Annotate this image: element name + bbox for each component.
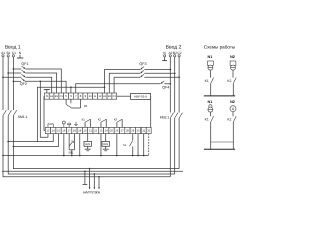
- neutral N input 1 busbar tap: [17, 55, 23, 58]
- junction drop into terminal 6: [70, 86, 72, 93]
- svg-text:13: 13: [46, 130, 49, 133]
- svg-text:QF4: QF4: [162, 86, 169, 90]
- internal relay K0 contact (terminals 5-6-7): [66, 99, 88, 108]
- wire terminal 26 to common rail: [116, 134, 118, 157]
- wire QF2 from C1 phase to terminal 5: [13, 80, 67, 93]
- wire QF2 branch down left side to terminal 13: [40, 81, 48, 137]
- svg-text:26: 26: [115, 130, 118, 133]
- load arrows: [89, 187, 100, 189]
- bell output icon above terminal 17: [67, 123, 70, 127]
- relay contact K3 (terminals 26-27): [114, 117, 122, 127]
- svg-text:S1: S1: [123, 144, 127, 147]
- terminal A1 (input 1): [2, 55, 4, 57]
- wire phase B2 below KM2.1 down to bus B: [174, 118, 176, 174]
- scheme1 lamp N1: [208, 55, 214, 70]
- svg-text:N1: N1: [208, 100, 213, 104]
- svg-text:Схемы работы: Схемы работы: [204, 45, 235, 50]
- svg-text:B2: B2: [108, 95, 112, 98]
- svg-text:КМ2: КМ2: [103, 143, 109, 146]
- contactor coil KM1: [84, 134, 91, 151]
- svg-text:N1: N1: [208, 55, 213, 59]
- svg-text:КМ2.1: КМ2.1: [160, 115, 170, 119]
- wire phase C2 below KM2.1 down to bus C: [178, 118, 180, 169]
- common/ground icon above terminal 18: [74, 122, 78, 126]
- scheme1 supply rail: [204, 95, 235, 97]
- svg-text:32: 32: [147, 130, 150, 133]
- junction QF2 branch to Ub terminal 13: [39, 80, 41, 82]
- svg-text:К3: К3: [114, 117, 118, 121]
- wire QF1 pole2 B1-phase to terminal B1: [7, 72, 56, 93]
- svg-text:22: 22: [94, 130, 97, 133]
- svg-text:15: 15: [57, 130, 60, 133]
- wire QF4 from A2 phase to terminal 7: [76, 83, 171, 93]
- svg-text:QF2: QF2: [20, 82, 27, 86]
- common rail wire under controller: [2, 155, 149, 157]
- node Схемы работы (operation schemes title): [204, 45, 235, 50]
- svg-text:K2: K2: [227, 118, 231, 122]
- wire QF1 pole1 C1-phase to terminal C1: [13, 68, 62, 93]
- svg-text:16: 16: [62, 130, 65, 133]
- scheme2 contact K2: [227, 112, 236, 122]
- svg-text:27: 27: [121, 130, 124, 133]
- svg-text:A2: A2: [103, 95, 107, 98]
- load drop B phase: [93, 173, 95, 187]
- scheme1 contact K2: [227, 70, 236, 83]
- contactor KM1.1 main contacts (input 1): [3, 110, 28, 119]
- terminal A2 (input 2): [169, 55, 171, 57]
- scheme2 lamp N1: [208, 100, 213, 112]
- svg-text:N2: N2: [230, 100, 235, 104]
- controller type label АВР-01-К: [131, 93, 151, 99]
- svg-text:Ввод 2: Ввод 2: [166, 45, 182, 51]
- svg-text:К2: К2: [98, 117, 102, 121]
- relay contact K2 (terminals 23-24): [98, 117, 106, 127]
- svg-text:КМ1.1: КМ1.1: [18, 115, 28, 119]
- scheme1 lamp N2: [230, 55, 236, 70]
- scheme1 wire K1 to rail: [210, 83, 212, 95]
- terminal B1 (input 1): [7, 55, 9, 57]
- svg-text:C1: C1: [60, 95, 64, 98]
- svg-text:25: 25: [110, 130, 113, 133]
- wire phase A1 below KM1.1 to bus A: [3, 116, 170, 177]
- wire phase C2 vertical: [178, 57, 180, 113]
- svg-text:НАГРУЗКА: НАГРУЗКА: [83, 191, 101, 195]
- scheme2 generator N2: [230, 100, 236, 112]
- svg-text:K2: K2: [227, 79, 231, 83]
- contactor coil KM2: [102, 134, 109, 151]
- svg-text:24: 24: [105, 130, 108, 133]
- wire QF3 pole1 A2-phase to terminal A2: [105, 69, 172, 93]
- svg-text:К0: К0: [84, 104, 88, 108]
- svg-text:29: 29: [131, 130, 134, 133]
- svg-text:17: 17: [68, 130, 71, 133]
- svg-text:КМ1: КМ1: [85, 143, 91, 146]
- wire phase A2 below KM2.1 down to bus A: [169, 118, 171, 177]
- svg-text:АВР-01-К: АВР-01-К: [134, 95, 147, 99]
- neutral N input 2 busbar tap: [162, 55, 167, 61]
- wire terminal 19 to common rail: [79, 134, 81, 157]
- svg-text:23: 23: [99, 130, 102, 133]
- svg-text:SB1: SB1: [68, 152, 74, 155]
- svg-text:N: N: [46, 94, 48, 98]
- lamp output icon above terminal 16: [62, 121, 65, 127]
- svg-text:19: 19: [78, 130, 81, 133]
- wire phase B2 vertical: [174, 57, 176, 113]
- circuit breaker QF3 (3-pole, input 2 sensing): [139, 62, 146, 77]
- node Ввод 2 (input 2 title): [166, 45, 182, 51]
- terminal C1 (input 1): [12, 55, 14, 57]
- svg-text:14: 14: [52, 130, 55, 133]
- wire terminal 16 to common rail: [63, 134, 65, 157]
- scheme2 contact K1: [205, 112, 214, 122]
- wire terminal 14 to phase B1 tap junction: [7, 134, 53, 143]
- svg-text:20: 20: [84, 130, 87, 133]
- svg-text:Ввод 1: Ввод 1: [5, 45, 21, 51]
- scheme2 supply rail: [204, 148, 235, 150]
- svg-text:28: 28: [126, 130, 129, 133]
- load neutral drop with busbar tap symbol: [83, 170, 88, 184]
- scheme2 tie wire between columns: [211, 141, 234, 143]
- wire terminal 32 dashed to common rail: [148, 134, 150, 156]
- switch S1 (terminal 29 test input): [123, 134, 134, 157]
- svg-text:QF1: QF1: [21, 62, 28, 66]
- neutral bus N horizontal: [2, 170, 183, 172]
- svg-text:Ub: Ub: [49, 123, 53, 126]
- controller АВР-01-К block outline: [44, 96, 151, 130]
- wire terminal 15 to phase C1 tap: [13, 134, 59, 148]
- wire phase A1 vertical: [2, 57, 4, 110]
- contactor KM2.1 main contacts (input 2): [160, 113, 183, 120]
- terminal C2 (input 2): [178, 55, 180, 57]
- wire phase A2 vertical: [169, 57, 171, 113]
- controller neutral busbar tap above terminal N: [44, 90, 50, 93]
- svg-text:K1: K1: [205, 79, 209, 83]
- svg-text:A1: A1: [50, 95, 54, 98]
- wire QF3 pole2 B2-phase to terminal B2: [109, 72, 175, 93]
- scheme2 wire K2 down to rail: [232, 122, 234, 149]
- circuit breaker QF4 (control supply input 2): [161, 81, 170, 90]
- wire phase C1 vertical: [12, 57, 14, 110]
- terminal labels N A2 B2 C2 (input 2): [163, 51, 181, 55]
- scheme1 contact K1: [205, 70, 214, 83]
- pushbutton SB1 (terminals 17-18): [68, 134, 74, 157]
- svg-text:21: 21: [89, 130, 92, 133]
- svg-text:C2: C2: [113, 95, 117, 98]
- svg-text:30: 30: [137, 130, 140, 133]
- svg-text:B1: B1: [55, 95, 59, 98]
- wire QF3 pole3 C2-phase to terminal C2: [114, 76, 180, 93]
- svg-text:18: 18: [73, 130, 76, 133]
- load drop C phase: [89, 168, 91, 188]
- wire terminal 31 to common rail: [143, 134, 145, 157]
- wire phase B1 below KM1.1 to bus B: [8, 116, 175, 175]
- node Ввод 1 (input 1 title): [5, 45, 21, 51]
- terminal B2 (input 2): [174, 55, 176, 57]
- scheme1 wire K2 to rail: [232, 83, 234, 95]
- svg-text:К1: К1: [82, 117, 86, 121]
- controller bottom terminal strip 13-30 31 32: [45, 127, 151, 133]
- relay contact K1 (terminals 20-21): [82, 117, 91, 127]
- svg-text:N2: N2: [230, 55, 235, 59]
- svg-text:QF3: QF3: [139, 62, 146, 66]
- circuit breaker QF2 (control supply input 1): [20, 78, 27, 86]
- wire phase C1 below KM1.1 to bus C: [13, 116, 179, 169]
- controller top terminal strip N A1 B1 C1 5-12 A2 B2 C2: [44, 93, 116, 99]
- wire terminal 30 to common rail: [137, 134, 139, 157]
- scheme2 wire K1 down to rail: [210, 122, 212, 149]
- wire branch from A2 sensing to Ub terminal 14: [37, 86, 105, 141]
- circuit breaker QF1 (3-pole, input 1 sensing): [21, 62, 28, 77]
- wire QF1 pole3 A1-phase to terminal A1: [2, 76, 52, 93]
- label НАГРУЗКА (load): [83, 191, 101, 195]
- wire terminal 23 to common rail: [100, 134, 102, 157]
- label Ub supply terminals 13-14: [48, 123, 53, 127]
- load drop A phase: [98, 176, 100, 187]
- terminal labels A1 B1 C1 N (input 1): [1, 51, 22, 55]
- svg-text:31: 31: [142, 130, 145, 133]
- wire phase B1 vertical: [7, 57, 9, 110]
- svg-text:K1: K1: [205, 118, 209, 122]
